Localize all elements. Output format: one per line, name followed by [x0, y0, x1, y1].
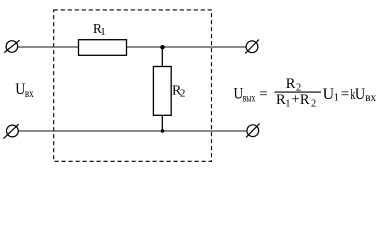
svg-text:2: 2: [180, 88, 186, 100]
svg-text:=: =: [341, 87, 349, 103]
wire: vertical wire from node to R2 top: [161, 47, 163, 67]
svg-text:1: 1: [285, 98, 290, 109]
formula: Uvyx = R2/(R1+R2) U1 = kUvx: [234, 76, 377, 110]
svg-text:U: U: [15, 81, 25, 98]
svg-text:вх: вх: [25, 86, 34, 100]
svg-text:U: U: [323, 86, 335, 103]
wire: bottom wire: [18, 130, 247, 132]
dashed box (divider network outline): [54, 10, 212, 161]
wire: top wire from R1 to output terminal: [127, 46, 247, 48]
svg-text:+: +: [292, 92, 300, 108]
wire: top-left input wire: [18, 46, 79, 48]
svg-text:U: U: [355, 86, 365, 103]
svg-text:1: 1: [334, 91, 340, 103]
svg-text:2: 2: [311, 98, 316, 109]
node: junction dot bottom: [161, 129, 165, 133]
fraction bar: [275, 91, 322, 93]
svg-text:1: 1: [100, 26, 106, 38]
svg-text:вых: вых: [243, 90, 256, 104]
svg-text:R: R: [300, 92, 310, 108]
svg-text:R: R: [286, 76, 296, 92]
terminal: input top (circle with slash): [4, 40, 19, 52]
terminal: output bottom (circle with slash): [246, 124, 260, 138]
terminal: input bottom (circle with slash): [4, 124, 19, 138]
svg-text:=: =: [259, 87, 267, 103]
svg-text:вх: вх: [365, 90, 376, 104]
terminal: output top (circle with slash): [245, 40, 259, 54]
resistor R2: [153, 67, 171, 116]
node: junction dot top (R1/R2 tap): [160, 45, 164, 49]
wire: vertical wire from R2 bottom to bottom wire: [161, 115, 163, 131]
resistor R1: [79, 40, 127, 56]
